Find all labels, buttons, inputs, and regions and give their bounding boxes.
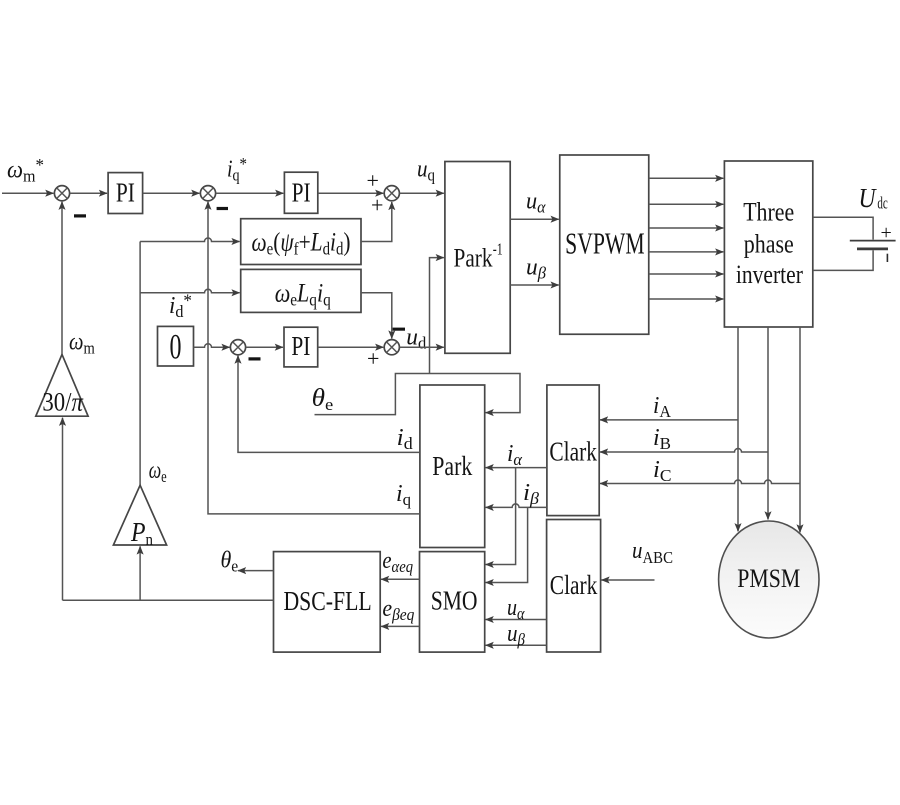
block: three phase inverter <box>724 161 812 327</box>
node: minus sign at S1 <box>74 214 86 217</box>
gain block Pn (pole pairs triangle) <box>113 485 166 549</box>
wire: SVPWM gate signal 4 <box>649 251 724 253</box>
wire: inverter output phase B down to PMSM <box>767 327 769 519</box>
wire: ωe bus from DSC-FLL to scaling triangles <box>63 599 274 601</box>
wire: ωm feedback from 30/π apex up to S1 minus input <box>61 202 63 355</box>
summing junction S5 (d-axis current error) <box>230 340 245 355</box>
wire: phase current iC tap to Clark (hops over phase A and B lines) <box>600 480 800 483</box>
svg-text:+: + <box>367 346 379 371</box>
wire: PI1 to S2 <box>143 192 200 194</box>
wire: iβ from Clark to Park (hop over iα drop) <box>486 504 547 507</box>
wire: PI2 to S3 <box>318 192 384 194</box>
svg-text:Clark: Clark <box>549 437 597 467</box>
wire: SVPWM gate signal 5 <box>649 273 724 275</box>
gain block 30/π (rad/s to rpm triangle) <box>36 354 88 416</box>
wire: iq feedback from Park left up to S2 (long riser) <box>208 202 420 514</box>
wire: inverter output phase C down to PMSM <box>799 327 801 532</box>
summing junction S4 (ud sum) <box>384 340 399 355</box>
wire: ωe feed into lower feedforward block (hop over iq feedback) <box>140 289 240 293</box>
summing junction S3 (uq sum) <box>384 186 399 201</box>
wire: S1 to PI1 <box>70 192 107 194</box>
svg-text:ωeLqiq: ωeLqiq <box>275 279 331 310</box>
block: DSC-FLL estimator <box>274 552 381 653</box>
svg-text:Clark: Clark <box>550 570 598 600</box>
block: Clark transform (currents) <box>547 385 599 516</box>
svg-text:SMO: SMO <box>431 585 478 615</box>
battery Udc positive plate <box>850 240 896 242</box>
block: feedforward term ωe(ψf+Ldid) <box>241 219 361 265</box>
wire: SVPWM gate signal 1 <box>649 177 724 179</box>
svg-text:0: 0 <box>170 327 182 367</box>
wire: S2 to PI2 <box>216 192 284 194</box>
motor PMSM <box>719 521 819 638</box>
wire: ωe feed into upper feedforward block (hop over iq feedback) <box>140 238 240 242</box>
summing junction S1 (speed error) <box>54 186 69 201</box>
wire: iα from Clark to Park <box>486 467 547 469</box>
svg-text:PI: PI <box>291 331 310 361</box>
block: Clark transform (voltages) <box>547 520 601 653</box>
block: SVPWM modulator <box>560 155 649 334</box>
svg-text:Park: Park <box>454 242 494 272</box>
svg-text:30/π: 30/π <box>42 388 83 417</box>
svg-text:+: + <box>881 222 892 244</box>
wire: id feedback from Park left up to S5 minus input <box>238 356 420 453</box>
svg-text:PI: PI <box>116 178 135 208</box>
svg-text:+: + <box>367 168 379 193</box>
svg-text:inverter: inverter <box>736 260 803 289</box>
wire: lower feedforward output to S4 minus input <box>361 293 392 339</box>
wire: S5 to PI3 <box>246 346 283 348</box>
wire: inverter to battery positive <box>813 217 873 239</box>
wire: inverter output phase A down to PMSM <box>737 327 739 531</box>
wire: battery negative back to inverter <box>813 250 873 270</box>
wire: S4 to Park inverse <box>399 346 443 348</box>
block: SMO observer <box>420 552 485 653</box>
svg-text:dc: dc <box>877 194 888 213</box>
wire: branch up into Pn triangle <box>139 546 141 600</box>
block: Park inverse transform <box>445 162 510 354</box>
node: minus sign at S2 <box>217 207 228 210</box>
svg-text:Park: Park <box>432 451 472 481</box>
block: feedforward term ωeLqiq <box>241 269 361 312</box>
wire: phase current iB tap to Clark (hop over phase A line) <box>600 449 768 452</box>
wire: uβ from voltage Clark to SMO <box>486 644 547 646</box>
battery Udc negative plate <box>857 247 888 250</box>
wire: phase current iA tap to Clark (junction at phase A line) <box>600 419 738 421</box>
svg-text:U: U <box>859 183 877 213</box>
svg-text:-1: -1 <box>493 240 503 259</box>
wire: θe distribution to Park transform <box>315 374 521 415</box>
svg-text:SVPWM: SVPWM <box>565 226 645 261</box>
wire: θe output arrow from DSC-FLL <box>238 570 274 572</box>
svg-text:DSC-FLL: DSC-FLL <box>283 586 371 616</box>
svg-text:+: + <box>371 193 383 218</box>
wire: SVPWM gate signal 3 <box>649 227 724 229</box>
op-amp PI2 (q-axis current regulator) <box>284 172 317 213</box>
node: Udc label <box>859 183 889 213</box>
wire: upper feedforward output to S3 plus input <box>361 202 392 242</box>
svg-text:PMSM: PMSM <box>737 564 800 593</box>
wire: eαeq from SMO to DSC-FLL <box>381 578 419 580</box>
wire: SVPWM gate signal 2 <box>649 203 724 205</box>
wire: speed reference input <box>2 192 53 194</box>
svg-text:phase: phase <box>744 230 794 259</box>
wire: iβ branch down into SMO <box>486 507 528 582</box>
svg-text:Three: Three <box>743 198 794 227</box>
block: zero d-axis reference <box>158 326 194 366</box>
wire: 0 block to S5 (hop over iq feedback) <box>194 344 230 348</box>
node: battery minus tick <box>887 254 889 262</box>
wire: uβ to SVPWM <box>510 284 559 286</box>
node: minus-ud label <box>393 325 427 353</box>
node: minus sign at S5 <box>249 357 261 360</box>
wire: uABC into voltage Clark <box>602 579 655 581</box>
op-amp PI3 (d-axis current regulator) <box>284 327 318 367</box>
summing junction S2 (q-axis current error) <box>200 186 215 201</box>
wire: uα from voltage Clark to SMO <box>486 619 547 621</box>
wire: θe branch up into Park inverse <box>430 258 444 374</box>
wire: PI3 to S4 <box>318 346 384 348</box>
svg-text:ωe(ψf+Ldid): ωe(ψf+Ldid) <box>252 228 351 259</box>
wire: up into 30/π triangle <box>62 418 64 601</box>
wire: eβeq from SMO to DSC-FLL <box>381 625 419 627</box>
block: Park transform <box>420 385 485 548</box>
wire: S3 to Park inverse <box>399 192 443 194</box>
wire: iα branch down into SMO <box>486 468 516 565</box>
op-amp PI1 (speed regulator) <box>108 173 143 214</box>
wire: SVPWM gate signal 6 <box>649 298 724 300</box>
wire: ωe vertical riser from Pn apex <box>139 242 141 486</box>
svg-text:PI: PI <box>292 178 311 208</box>
wire: uα to SVPWM <box>510 218 559 220</box>
